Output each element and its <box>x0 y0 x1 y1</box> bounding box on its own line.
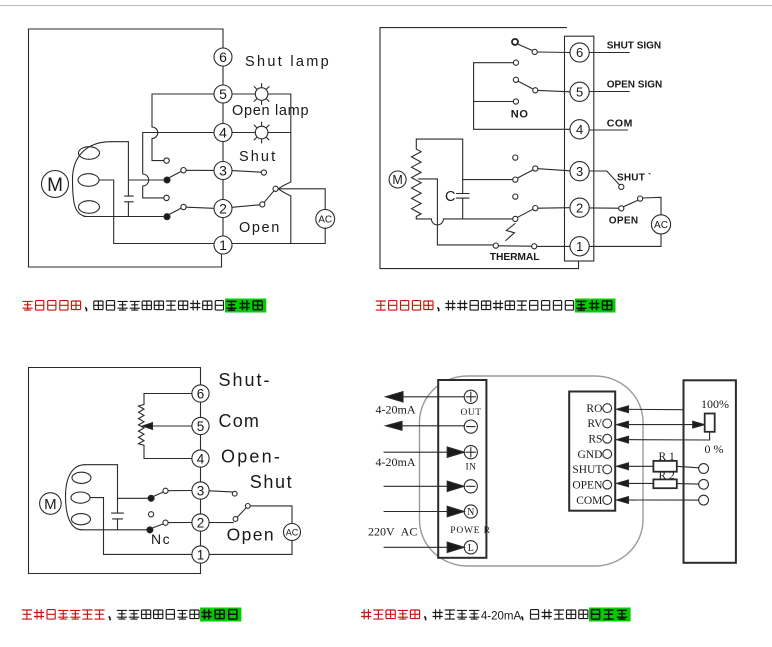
capacitor C3 <box>112 513 124 519</box>
svg-text:SHUT SIGN: SHUT SIGN <box>607 41 661 52</box>
svg-text:Open lamp: Open lamp <box>232 103 309 119</box>
wire SW5 NO contact to COM bracket <box>474 101 514 103</box>
caption 3: 开度式电位计型，开关型带开度式 接线图 <box>22 608 242 622</box>
svg-text:5: 5 <box>576 85 583 100</box>
svg-text:SHUT: SHUT <box>572 464 602 476</box>
OPEN switch lever <box>623 200 638 207</box>
switch SW5 contact <box>533 88 538 93</box>
top separator line <box>0 5 772 7</box>
wire OUT- with arrow out <box>386 421 465 430</box>
switch SW3 common <box>513 177 518 182</box>
wire SW2 contact to terminal 2 <box>538 207 570 210</box>
actuator body rounded outline <box>420 376 644 566</box>
svg-text:N: N <box>467 507 474 518</box>
thermal switch contact right <box>532 244 537 249</box>
switch SW2 common <box>513 216 518 221</box>
terminal 6 (TR) <box>570 43 589 62</box>
feedback panel <box>684 380 736 563</box>
switch SW2 lever <box>518 209 533 217</box>
switch S5 lever <box>152 524 163 528</box>
wire terminal 4 stub (COM) <box>589 129 627 131</box>
indicator lamp L2 <box>251 122 272 143</box>
arrowhead into OPEN <box>617 480 629 487</box>
wire SW6 alt contact to COM bracket <box>474 62 514 64</box>
wire terminal 2 to OPEN contact <box>589 207 619 209</box>
svg-text:2: 2 <box>219 201 227 217</box>
switch SW5 alt contact (NO) <box>513 99 518 104</box>
switch SW6 pivot <box>512 39 518 45</box>
wire potentiometer top to terminal 6 <box>144 393 192 395</box>
svg-text:5: 5 <box>197 419 205 434</box>
switch SW3 contact <box>533 166 538 171</box>
wire SW6 contact to terminal 6 <box>537 51 570 54</box>
svg-text:IN: IN <box>465 463 476 473</box>
svg-text:THERMAL: THERMAL <box>490 252 540 263</box>
svg-text:100%: 100% <box>701 397 729 411</box>
svg-text:220V AC: 220V AC <box>368 525 417 539</box>
svg-text:3: 3 <box>219 163 227 179</box>
switch S4 contact <box>163 488 168 493</box>
winding coil loop 3 <box>79 201 100 214</box>
pin RO <box>603 404 612 413</box>
lamp bus vertical wire with cusp to switch S3 pivot <box>278 94 291 244</box>
wire S6 pivot to AC BL <box>250 506 292 524</box>
switch SW5 pivot <box>513 77 518 82</box>
motor winding resistor (zigzag) <box>412 139 422 219</box>
terminal IN+ <box>464 446 477 459</box>
BL terminal bus wire <box>200 402 202 546</box>
svg-text:4: 4 <box>219 125 227 141</box>
svg-text:4: 4 <box>197 451 205 466</box>
AC source TR <box>651 215 670 234</box>
wire lamp L1 to lamp bus <box>268 93 291 95</box>
svg-text:COM: COM <box>576 495 602 507</box>
capacitor C2 bottom lead <box>462 198 464 219</box>
svg-text:NO: NO <box>511 109 529 121</box>
thermal protector squiggle <box>506 224 515 241</box>
terminal N <box>464 505 477 518</box>
svg-text:1: 1 <box>219 237 227 253</box>
svg-text:3: 3 <box>576 164 583 179</box>
svg-text:Shut: Shut <box>250 472 293 492</box>
terminal 6 (TL) <box>214 48 232 66</box>
wire terminal 3 to S3 contact <box>232 171 261 173</box>
motor winding arc <box>73 142 112 217</box>
wire S1 contact to terminal 3 <box>186 169 214 171</box>
svg-text:Shut-: Shut- <box>219 370 272 390</box>
switch S3 contact b <box>260 202 265 207</box>
capacitor C2 <box>456 194 469 199</box>
terminal 3 (TL) <box>214 162 232 180</box>
wire winding top to capacitor C1 <box>111 142 128 196</box>
svg-text:6: 6 <box>576 45 583 60</box>
wire lamp L2 to lamp bus <box>268 132 291 134</box>
wire terminal 4 to open lamp <box>232 132 255 134</box>
wire terminal 5 left <box>152 93 214 95</box>
TL terminal bus wire <box>222 66 224 236</box>
motor M3 <box>40 493 62 515</box>
arrowhead into RS <box>617 436 629 443</box>
capacitor C3 bottom lead <box>117 519 119 530</box>
SHUT feedback contact <box>619 184 624 189</box>
switch SW6 alt contact <box>513 60 518 65</box>
switch S4 lever <box>153 492 163 497</box>
terminal 4 (TR) <box>570 120 589 139</box>
svg-text:M: M <box>44 496 57 513</box>
resistor R1 <box>626 461 699 472</box>
terminal IN- <box>464 480 477 493</box>
AC source BL <box>284 524 301 541</box>
caption 4: 智能调节式，输入输出4-20mA，智能调节型 接线图 <box>361 608 630 623</box>
OPEN feedback contact <box>619 206 624 211</box>
svg-text:AC: AC <box>318 215 332 226</box>
switch S3 contact a <box>261 170 266 175</box>
switch SW5 lever <box>518 81 533 89</box>
svg-text:2: 2 <box>197 515 205 530</box>
svg-text:1: 1 <box>197 547 205 562</box>
svg-text:4-20mA: 4-20mA <box>376 455 416 469</box>
wire resistor middle tap to thermal rail <box>419 179 494 245</box>
wire winding middle tap to terminal 1 <box>99 180 214 244</box>
thermal switch contact left <box>493 243 498 248</box>
pin OPEN <box>603 480 612 489</box>
COM bracket wire to terminal 4 <box>474 63 571 130</box>
terminal 1 (TL) <box>214 236 232 254</box>
caption 1: 有源开关式，普通开关型带有源灯指示 接线图 <box>23 299 267 313</box>
switch S5 common junction <box>147 527 153 533</box>
wire terminal 2 to S6 contact b <box>210 522 234 524</box>
wire riser to terminal5 wire (with hop) <box>152 94 158 161</box>
svg-text:2: 2 <box>576 200 583 215</box>
switch S2 contact to terminal 2 <box>181 204 186 209</box>
panel contact a <box>699 464 709 474</box>
arrowhead into SHUT <box>617 463 629 470</box>
svg-text:OPEN: OPEN <box>609 215 639 226</box>
OPEN switch pivot <box>638 196 643 201</box>
winding coil loop 1 <box>79 147 100 160</box>
switch S1 contact to terminal 3 <box>181 168 186 173</box>
wire IN- with arrow in <box>384 481 464 491</box>
wire N with arrow in <box>384 506 464 516</box>
terminal 2 (TL) <box>214 200 232 218</box>
indicator lamp L1 <box>251 84 272 105</box>
arrowhead into RO <box>617 406 629 413</box>
wire S4 contact to terminal 3 BL <box>168 490 191 492</box>
wire winding middle tap to terminal 1 BL <box>90 498 192 555</box>
wire COM to panel contact <box>626 499 699 501</box>
wire terminal 4 left + riser to S2 alt contact (with hop) <box>143 133 214 198</box>
wire SW5 contact to terminal 5 <box>538 90 570 91</box>
terminal 3 (TR) <box>570 162 589 181</box>
svg-text:RO: RO <box>586 403 602 415</box>
potentiometer wiper arrow from terminal 5 <box>142 423 191 430</box>
motor M1 <box>42 171 69 198</box>
winding coil 2 BL <box>71 492 90 503</box>
wire L with arrow in <box>384 542 464 552</box>
wire S2 contact to terminal 2 <box>186 207 214 208</box>
wire terminal 6 stub (SHUT SIGN) <box>589 52 629 54</box>
switch S2 lever <box>169 208 182 214</box>
switch S6 contact b <box>233 517 238 522</box>
switch SW3 unused contact <box>513 155 518 160</box>
terminal 3 (BL) <box>192 482 209 499</box>
svg-text:C: C <box>445 189 455 205</box>
wire bottom rail with hop over tap riser <box>416 219 512 225</box>
terminal 2 (TR) <box>570 198 589 217</box>
resistor R2 <box>626 479 699 488</box>
svg-text:OUT: OUT <box>460 408 481 418</box>
switch S3 pivot <box>273 186 278 191</box>
switch S1 alt contact (to terminal 5 wire) <box>164 158 169 163</box>
wire potentiometer bottom to terminal 4 <box>144 458 192 460</box>
svg-text:4-20mA: 4-20mA <box>376 403 416 417</box>
svg-text:6: 6 <box>219 49 227 65</box>
wire resistor top to capacitor C2 branch <box>416 139 462 193</box>
wire terminal 5 to shut lamp <box>232 93 255 95</box>
wire S3 pivot to AC source <box>278 189 325 210</box>
svg-text:M: M <box>47 175 63 196</box>
switch S1 lever <box>169 172 182 179</box>
wire terminal 1 to AC bottom <box>232 228 325 243</box>
svg-text:POWE R: POWE R <box>450 526 490 536</box>
panel contact c <box>699 495 709 505</box>
wire winding bottom to switch S2 common <box>84 216 164 218</box>
wire alt contact to vertical riser <box>152 160 164 162</box>
potentiometer RP zigzag <box>139 394 145 459</box>
wire SW3 contact to terminal 3 <box>538 169 570 171</box>
terminal 5 (TL) <box>214 85 232 103</box>
wire capacitor C1 bottom lead <box>127 202 129 217</box>
control board block <box>569 392 615 511</box>
thermal switch lever <box>498 245 531 247</box>
switch S3 lever <box>264 191 274 203</box>
terminal OUT- <box>464 420 477 433</box>
svg-text:GND: GND <box>577 449 602 461</box>
svg-text:M: M <box>392 173 402 187</box>
switch S1 common junction <box>164 177 170 183</box>
winding coil 3 BL <box>72 514 91 525</box>
switch S6 lever <box>237 508 246 517</box>
wire pivot to AC source TR <box>643 197 661 215</box>
switch S2 alt contact <box>164 195 169 200</box>
TR terminal strip <box>565 36 594 261</box>
switch SW2 unused contact <box>513 194 518 199</box>
svg-text:Open: Open <box>239 220 281 236</box>
BR terminal strip <box>438 380 486 558</box>
svg-text:RS: RS <box>588 434 602 446</box>
terminal 5 (BL) <box>192 417 209 434</box>
svg-text:R 1: R 1 <box>659 451 676 463</box>
svg-text:4: 4 <box>576 122 583 137</box>
svg-text:6: 6 <box>197 386 205 401</box>
svg-text:AC: AC <box>286 527 299 537</box>
svg-text:COM: COM <box>607 118 633 130</box>
switch SW6 lever <box>517 44 532 51</box>
svg-text:Shut: Shut <box>239 149 277 165</box>
switch SW6 contact <box>532 49 537 54</box>
panel contact b <box>699 479 709 489</box>
switch S2 common junction <box>164 214 170 220</box>
terminal 1 (BL) <box>192 546 209 563</box>
svg-text:OPEN SIGN: OPEN SIGN <box>607 80 663 91</box>
wire S5 contact to terminal 2 BL <box>168 522 191 524</box>
terminal OUT+ <box>464 390 477 403</box>
terminal 2 (BL) <box>192 514 209 531</box>
svg-text:Com: Com <box>219 411 261 431</box>
arrowhead into RV <box>617 421 629 428</box>
svg-text:Open: Open <box>227 525 275 545</box>
pin COM <box>603 496 612 505</box>
svg-text:OPEN: OPEN <box>572 480 603 492</box>
BL enclosure box <box>29 368 201 574</box>
switch SW3 lever <box>518 170 533 178</box>
pin RV <box>603 419 612 428</box>
pin SHUT <box>603 465 612 474</box>
AC source TL <box>316 210 335 229</box>
wire winding bottom rail BL <box>81 529 147 531</box>
wire winding top to capacitor C3 <box>85 465 117 513</box>
wire IN+ with arrow in <box>384 447 464 457</box>
wire terminal 3 to S6 contact a <box>210 491 233 492</box>
svg-text:AC: AC <box>654 220 668 231</box>
wire terminal 5 stub (OPEN SIGN) <box>589 91 629 93</box>
motor winding arc BL <box>66 465 86 530</box>
wire OUT+ with arrow out <box>386 392 465 402</box>
terminal 1 (TR) <box>570 237 589 256</box>
switch S4 common junction <box>148 495 154 501</box>
caption 2: 无源开关式，开关型无源触点型带反馈 接线图 <box>376 299 616 313</box>
pin RS <box>603 434 612 443</box>
terminal 4 (BL) <box>192 450 209 467</box>
svg-text:1: 1 <box>576 239 583 254</box>
TL enclosure box <box>29 29 224 267</box>
wire RS to potentiometer bottom stub <box>626 432 710 440</box>
svg-text:0 %: 0 % <box>705 442 724 456</box>
floating contact (Nc) <box>149 512 154 517</box>
motor M2 <box>389 171 406 188</box>
wire terminal 2 to S3 contact b <box>232 205 260 208</box>
wire terminal 1 to AC bottom TR <box>589 234 661 246</box>
svg-text:4-20mA: 4-20mA <box>481 611 522 623</box>
svg-text:RV: RV <box>587 418 603 430</box>
panel potentiometer 100% <box>705 414 715 432</box>
wire terminal 1 to AC bottom BL <box>210 541 293 555</box>
svg-text:3: 3 <box>197 483 205 498</box>
svg-text:L: L <box>468 543 474 554</box>
svg-text:Shut lamp: Shut lamp <box>245 54 331 70</box>
winding coil loop 2 <box>78 174 99 187</box>
pin GND <box>603 450 612 459</box>
wire terminal 3 to SHUT contact <box>589 171 619 185</box>
switch SW2 contact <box>533 206 538 211</box>
svg-text:SHUT `: SHUT ` <box>617 172 652 183</box>
arrowhead into COM <box>617 497 629 504</box>
switch S6 pivot <box>245 504 250 509</box>
wire thermal to terminal 1 <box>537 245 570 247</box>
terminal 6 (BL) <box>192 385 209 402</box>
wire cap branch to switch SW3 common <box>463 179 513 181</box>
terminal L <box>464 541 477 554</box>
switch S6 contact a <box>232 491 237 496</box>
wire RO to right panel <box>626 408 684 410</box>
svg-text:Nc: Nc <box>151 531 171 547</box>
winding coil 1 BL <box>72 472 91 483</box>
capacitor C1 <box>125 196 134 202</box>
wire capacitor tap to switch S1 common <box>128 179 164 181</box>
wire RV to potentiometer (double arrow) <box>626 421 705 428</box>
svg-text:5: 5 <box>219 86 227 102</box>
switch S5 contact <box>163 520 168 525</box>
svg-text:Open-: Open- <box>221 447 282 467</box>
terminal 4 (TL) <box>214 124 232 142</box>
terminal 5 (TR) <box>570 82 589 101</box>
wire cap branch to switch S4 common <box>118 497 149 499</box>
svg-text:R 2: R 2 <box>659 470 676 482</box>
TR enclosure box <box>380 28 579 269</box>
